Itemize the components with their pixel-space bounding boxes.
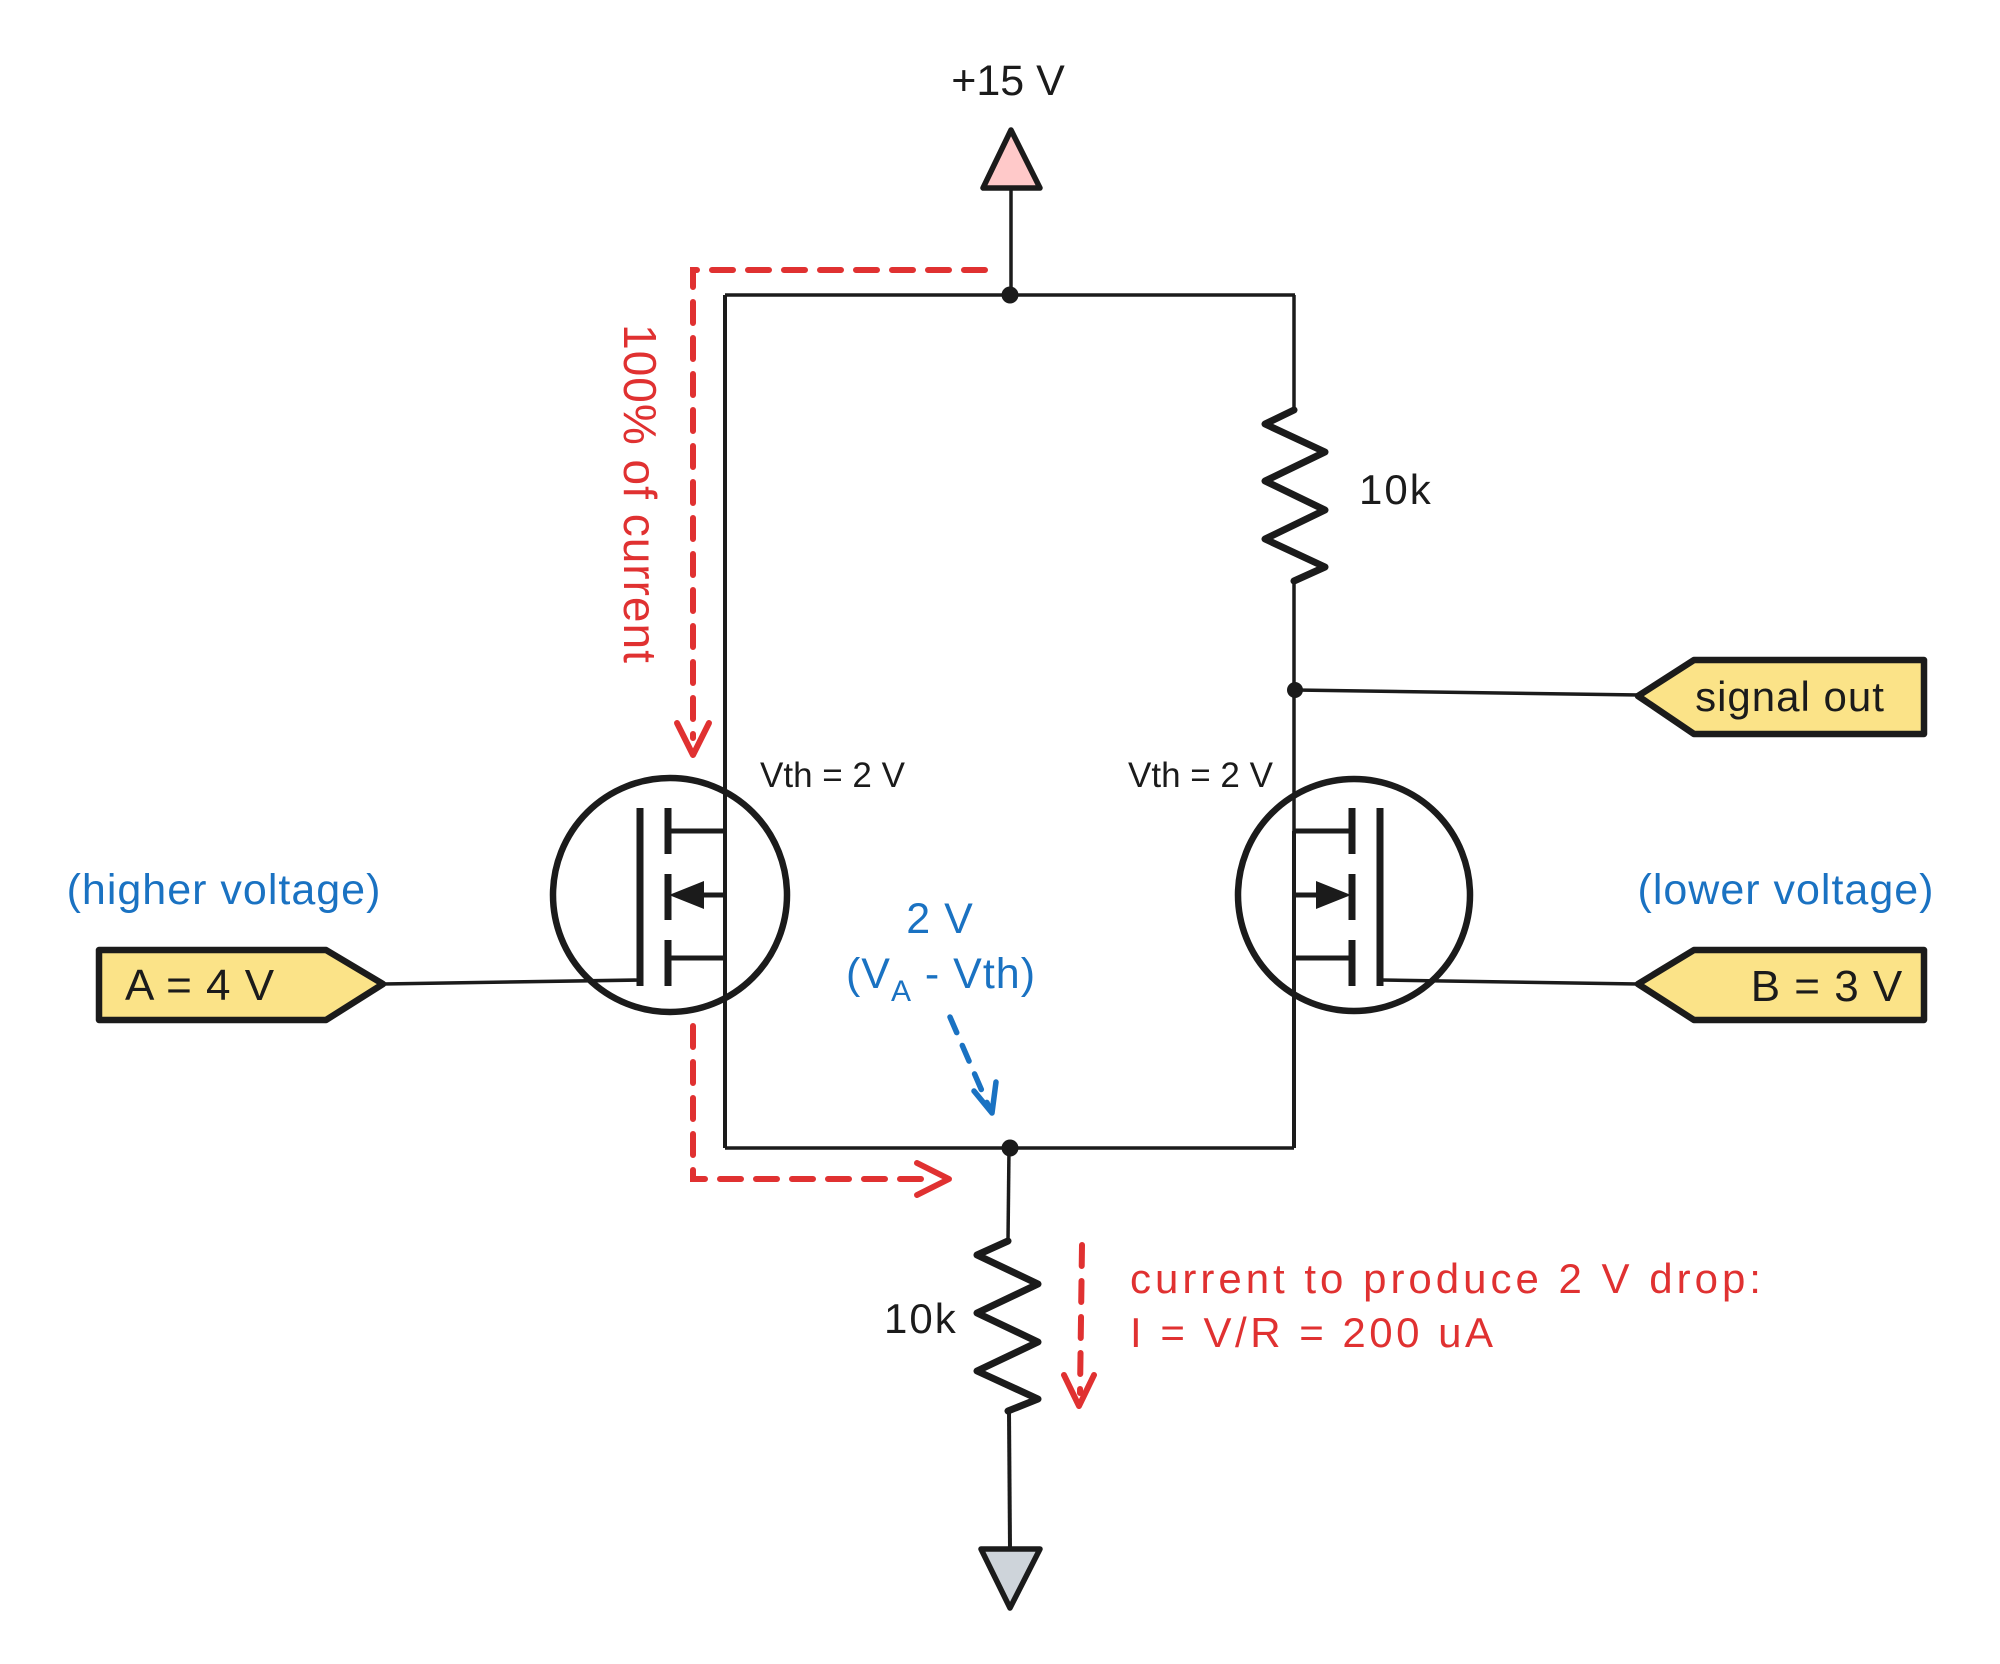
svg-text:I = V/R = 200 uA: I = V/R = 200 uA bbox=[1130, 1309, 1497, 1356]
Q2 gate bar bbox=[1377, 808, 1384, 986]
wire gate lead Q2 bbox=[1382, 980, 1638, 984]
transistor Q1 circle bbox=[553, 778, 787, 1012]
net flag B = 3 V bbox=[1638, 950, 1924, 1020]
junction bottom rail bbox=[1002, 1140, 1019, 1157]
wire gate lead Q1 bbox=[383, 980, 640, 984]
wire drain-source Q2 vertical bbox=[1292, 831, 1296, 1148]
Q1 gate bar bbox=[637, 808, 644, 986]
Q2 body stub with arrow bbox=[1294, 893, 1320, 898]
svg-text:(lower voltage): (lower voltage) bbox=[1638, 866, 1935, 914]
wire signal out bbox=[1295, 690, 1640, 695]
wire power to top rail bbox=[1009, 189, 1013, 295]
annotation red dashed current path (top) bbox=[693, 270, 985, 738]
wire resistor to signal node bbox=[1292, 581, 1296, 831]
wire bottom rail (sources) bbox=[725, 1146, 1294, 1150]
svg-text:signal out: signal out bbox=[1695, 673, 1885, 720]
wire left branch vertical (drain-source of Q1) bbox=[723, 295, 727, 1148]
svg-text:Vth = 2 V: Vth = 2 V bbox=[760, 756, 906, 795]
Q2 drain stub bbox=[1294, 829, 1352, 834]
arrowhead down (red path top) bbox=[677, 723, 709, 755]
net flag A = 4 V bbox=[99, 950, 383, 1020]
annotation blue dashed arrow bbox=[950, 1017, 988, 1105]
Q1 source stub bbox=[668, 956, 727, 961]
arrowhead right (red path bottom) bbox=[917, 1163, 949, 1195]
Q1 drain stub bbox=[668, 829, 727, 834]
Q1 body stub with arrow bbox=[700, 893, 727, 898]
svg-text:Vth = 2 V: Vth = 2 V bbox=[1128, 756, 1274, 795]
Q1 channel (dashed bar) bbox=[665, 808, 672, 986]
svg-text:10k: 10k bbox=[884, 1295, 958, 1342]
junction top rail bbox=[1002, 287, 1019, 304]
svg-text:(VA - Vth): (VA - Vth) bbox=[846, 950, 1036, 1008]
wire top rail bbox=[725, 293, 1295, 297]
resistor R top 10k bbox=[1265, 410, 1325, 581]
wire resistor to ground bbox=[1009, 1411, 1010, 1549]
svg-text:10k: 10k bbox=[1359, 466, 1433, 513]
svg-text:2 V: 2 V bbox=[906, 895, 974, 943]
power symbol +15V (pink triangle) bbox=[983, 130, 1040, 188]
transistor Q2 circle bbox=[1238, 779, 1470, 1011]
annotation red dashed arrow (tail current) bbox=[1080, 1245, 1082, 1393]
net flag signal out bbox=[1638, 660, 1924, 734]
wire right branch top lead bbox=[1292, 295, 1296, 410]
svg-text:current to produce 2 V drop:: current to produce 2 V drop: bbox=[1130, 1255, 1765, 1302]
svg-text:+15 V: +15 V bbox=[951, 57, 1065, 105]
svg-text:A = 4 V: A = 4 V bbox=[125, 961, 275, 1010]
Q2 source stub bbox=[1294, 956, 1352, 961]
wire junction to tail resistor bbox=[1008, 1148, 1009, 1241]
svg-text:B = 3 V: B = 3 V bbox=[1751, 962, 1904, 1011]
resistor R tail 10k bbox=[977, 1241, 1038, 1411]
annotation red dashed current path (bottom) bbox=[693, 1026, 928, 1179]
svg-text:(higher voltage): (higher voltage) bbox=[67, 866, 382, 914]
node signal out junction bbox=[1287, 682, 1303, 698]
Q2 channel (dashed bar) bbox=[1349, 808, 1356, 986]
ground symbol bbox=[981, 1549, 1040, 1608]
svg-text:100% of current: 100% of current bbox=[614, 324, 666, 664]
